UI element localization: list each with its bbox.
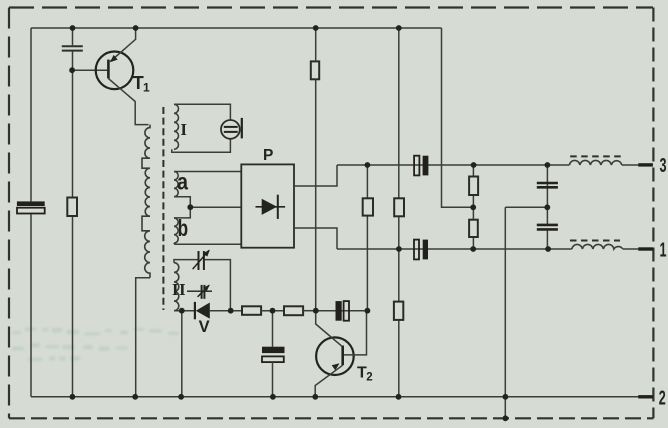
node ground at x135 [132,394,138,400]
wire T1 collector to primary [108,79,148,125]
wire left rail lower [30,214,32,397]
resistor R-367 [363,198,373,215]
terminal 3 [638,163,653,166]
wire P upper output [294,165,337,186]
trimmer capacitor 1 [193,250,210,270]
wire P lower output [294,228,337,249]
wire T2 emitter down [315,365,343,397]
capacitor C-elec-mid [262,347,285,362]
wire junction to feedthrough C [316,310,368,312]
T1 emitter arrow [110,55,118,62]
node ground at T2 emitter [312,394,318,400]
svg-text:3: 3 [660,155,667,177]
svg-text:I: I [181,120,187,139]
resistor R-top (from rail) [311,61,319,79]
node ground at x398 [396,394,402,400]
svg-text:V: V [199,317,211,336]
resistor R-left [67,198,77,217]
node diode cathode net [228,308,234,314]
wire x398 vertical [398,28,400,397]
capacitor C-547-upper [537,183,558,187]
node top rail at x398 [396,25,402,31]
feedthrough capacitor on line 3 [414,156,428,176]
terminal 2 [638,395,653,398]
winding II coil [174,263,179,311]
node line1 at R473 [470,246,476,252]
capacitor C-elec-left [17,201,45,213]
inductor L1 core (dashed) [570,240,620,242]
inductor L3 core (dashed) [570,155,621,157]
node T1 base junction [69,67,75,73]
capacitor C-547-lower [537,225,558,230]
wire loop I bottom [172,139,231,153]
wire primary bottom return [136,278,150,397]
transistor T1 [96,52,134,90]
wire elec-mid branch [272,311,274,397]
winding b coil [174,218,178,243]
wire y311 diode row left [174,310,194,312]
wire R2 to junction [303,310,316,312]
inductor L1 [572,244,623,249]
svg-text:1: 1 [660,240,667,262]
terminal 1 [638,247,653,250]
wire x442 from rail to resistor chain [442,28,474,207]
node line3 at C547 [545,162,551,168]
wire bottom ground rail [31,396,639,398]
shield border right (dashed) [652,8,654,419]
wire T2 collector up [344,311,367,355]
wire chassis branch x505 [505,207,547,418]
node top rail at R-top [313,25,319,31]
node ground at x181 [178,394,184,400]
wire x315 vertical [315,28,317,311]
transformer core (dashed) [162,107,164,310]
node diode anode [179,308,185,314]
node line1 at x398 [396,246,402,252]
node shield at x505 [503,415,509,421]
diode V [195,302,210,319]
trimmer capacitor 2 [187,285,212,299]
wire tap to P [190,206,241,208]
wire T2 base from junction [316,311,342,347]
T2 emitter arrow [332,363,340,370]
node top rail at T1 emitter [133,25,139,31]
svg-text:P: P [263,147,273,164]
diode inside P [256,195,286,219]
svg-text:II: II [172,280,186,299]
wire x547 vertical [546,165,548,249]
node ground at x72 [70,394,76,400]
box P [241,164,294,247]
node line1 at C547 [545,246,551,252]
svg-text:2: 2 [366,372,372,384]
node T2 base [313,308,319,314]
svg-text:a: a [177,169,188,195]
node top rail at C1 [70,25,76,31]
node line3 at R473 [471,162,477,168]
resistor R-473-upper [469,177,478,196]
wire loop II top [174,260,230,311]
wire C1 branch and base feed [72,28,107,397]
wire left rail upper [30,28,32,201]
resistor R-398-upper [394,198,404,216]
resistor R-473-lower [469,220,478,237]
svg-text:b: b [178,215,189,241]
inductor L3 [569,160,621,165]
winding a coil [174,172,178,197]
wire diode to R1 [210,310,242,312]
node mid at C547 [544,204,550,210]
node ground at x505 [503,394,509,400]
wire loop I top [174,104,230,120]
node mid at R473 [470,204,476,210]
wire IF line y165 [337,164,639,166]
capacitor C1 [62,46,83,50]
node elec-mid top [270,308,276,314]
node line3 at R367 [365,162,371,168]
svg-text:1: 1 [143,81,150,95]
resistor R-398-lower [394,302,403,320]
transformer primary winding (3 sections) [142,125,150,278]
wire R1 to R2 [261,310,284,312]
node T2 collector [365,308,371,314]
shield border left (dashed) [8,8,10,419]
transistor T2 [316,337,354,375]
svg-text:2: 2 [659,387,666,409]
wire winding a bottom to tap [174,197,190,208]
wire IF line y249 [337,248,639,250]
feedthrough capacitor at T2 base [336,301,350,321]
node winding tap [187,204,193,210]
wire T1 emitter to rail [110,28,135,62]
trimmer capacitor in loop I (circle type) [221,118,242,139]
wire x473 vertical [472,165,474,249]
shield border bottom (dashed) [9,417,653,419]
feedthrough capacitor on line 1 [414,240,428,260]
node ground at x272 [270,394,276,400]
resistor R2 [284,306,303,315]
wire winding b bottom to P [174,243,241,244]
wire x367 vertical [366,165,368,311]
shield border top (dashed) [9,6,653,8]
winding I coil [174,104,179,149]
resistor R1 [242,306,261,315]
wire winding b top from tap [174,207,190,218]
wire winding a top [174,171,241,173]
wire top supply rail [31,27,442,29]
wire branch down from diode anode junction [181,311,183,397]
